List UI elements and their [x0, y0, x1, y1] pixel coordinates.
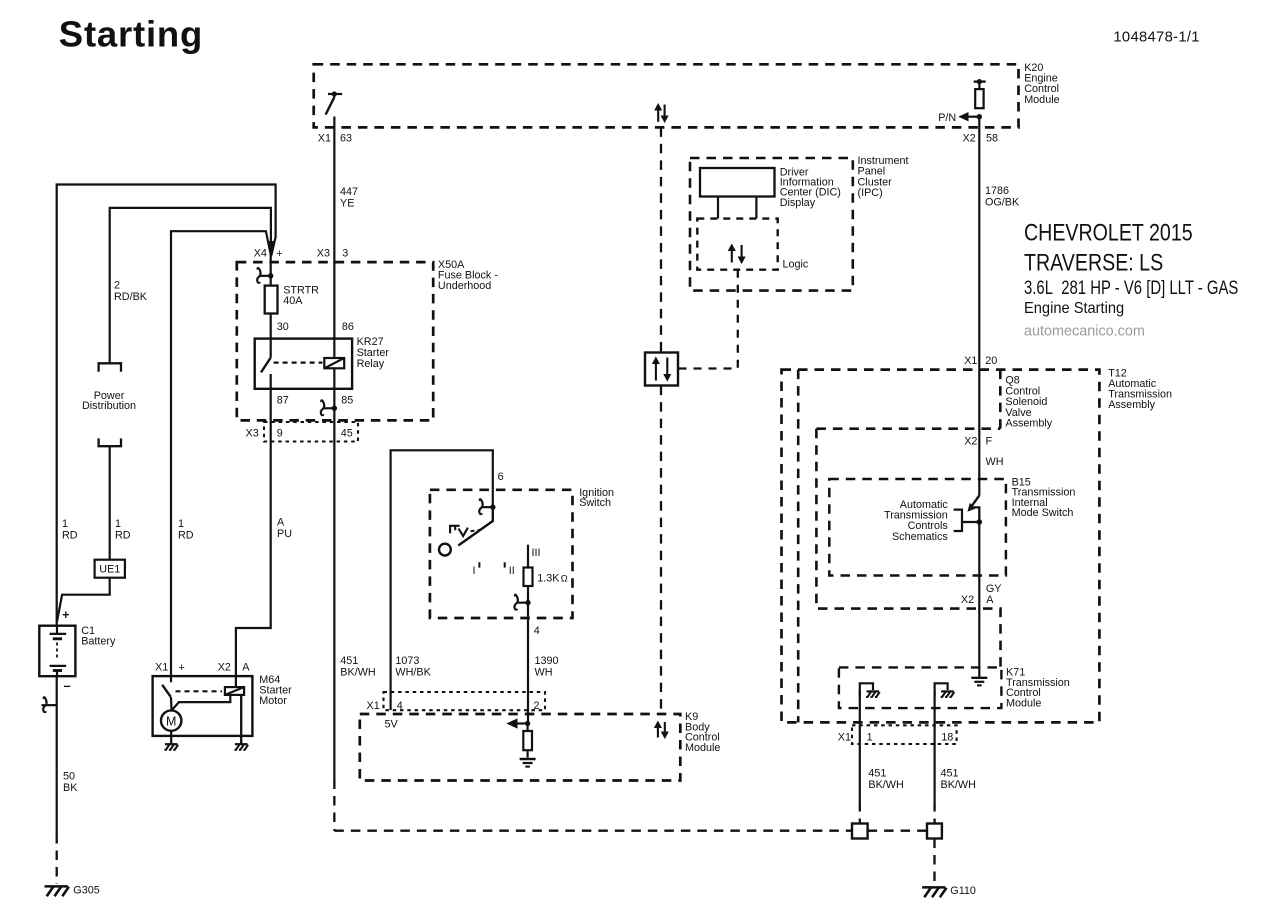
svg-text:X1: X1: [155, 661, 168, 673]
svg-text:2: 2: [534, 700, 540, 712]
ignition switch rotor circle: [439, 544, 451, 556]
inline connector at relay 85: [322, 407, 334, 409]
svg-text:X1: X1: [318, 133, 331, 145]
svg-text:63: 63: [340, 133, 352, 145]
node P/N with left arrow: [967, 116, 979, 118]
power distribution tap bracket upper: [99, 363, 121, 372]
svg-text:58: 58: [986, 132, 998, 144]
junction arrow into X4+: [268, 242, 274, 258]
wire power distribution feed: [110, 208, 271, 363]
svg-text:+: +: [276, 248, 282, 260]
svg-text:Module: Module: [1024, 94, 1059, 106]
wire power distribution to UE1: [109, 446, 111, 560]
svg-text:BK/WH: BK/WH: [340, 666, 375, 678]
svg-text:BK/WH: BK/WH: [868, 779, 903, 791]
svg-text:86: 86: [342, 321, 354, 333]
svg-text:30: 30: [277, 321, 289, 333]
dashed serial data wire (K20 to BCM, vertical): [660, 127, 662, 352]
inline connector on battery negative: [41, 704, 56, 706]
svg-text:1048478-1/1: 1048478-1/1: [1113, 30, 1199, 46]
wire BCM 5V feed to ignition pin 6: [391, 450, 493, 710]
wire 85 down through X3-45: [333, 408, 335, 779]
wire 1390 WH ignition to BCM: [527, 603, 529, 724]
svg-text:X2: X2: [963, 132, 976, 144]
bracket to transmission controls schematics: [954, 510, 962, 531]
svg-text:40A: 40A: [283, 295, 303, 307]
dashed serial data branch to IPC logic: [678, 270, 738, 369]
svg-text:Mode Switch: Mode Switch: [1012, 507, 1074, 519]
position tick I: [478, 562, 480, 567]
svg-text:4: 4: [397, 700, 403, 712]
solenoid to motor link: [173, 695, 231, 709]
svg-text:automecanico.com: automecanico.com: [1024, 324, 1145, 340]
wire battery negative 50 BK: [56, 676, 58, 834]
svg-text:Assembly: Assembly: [1108, 399, 1155, 411]
svg-text:1073: 1073: [395, 655, 419, 667]
svg-text:WH/BK: WH/BK: [395, 666, 431, 678]
wire 447 YE (K20 X1-63 down to starter relay coil 86): [333, 117, 335, 359]
relay KR27 box: [255, 339, 352, 389]
svg-text:III: III: [532, 547, 541, 559]
svg-text:451: 451: [868, 768, 886, 780]
svg-text:85: 85: [341, 395, 353, 407]
B15 switch pole: [973, 507, 979, 522]
K71 internal ground pin 18: [935, 683, 948, 697]
svg-text:3.6L 281 HP - V6 [D] LLT - GA: 3.6L 281 HP - V6 [D] LLT - GAS: [1024, 276, 1238, 298]
svg-text:Distribution: Distribution: [82, 400, 136, 412]
svg-text:X2: X2: [964, 436, 977, 448]
svg-text:+: +: [179, 662, 185, 674]
svg-text:M: M: [166, 715, 176, 729]
svg-text:WH: WH: [986, 456, 1004, 468]
chassis ground under motor: [165, 743, 178, 745]
wire starter motor battery cable feed: [171, 231, 271, 676]
wire X4 stub into fuse: [270, 255, 272, 276]
svg-text:A: A: [277, 517, 285, 529]
svg-text:Motor: Motor: [259, 695, 287, 707]
svg-text:451: 451: [340, 655, 358, 667]
svg-text:X2: X2: [218, 661, 231, 673]
starter solenoid dashed link: [176, 690, 223, 692]
svg-text:A: A: [986, 594, 994, 606]
svg-text:Starting: Starting: [59, 14, 203, 55]
DIC display leg left: [717, 197, 719, 219]
K71 internal ground pin 1: [860, 683, 873, 697]
svg-text:RD: RD: [62, 530, 78, 542]
svg-text:Engine Starting: Engine Starting: [1024, 299, 1124, 317]
svg-text:A: A: [242, 661, 250, 673]
svg-text:1: 1: [115, 518, 121, 530]
svg-text:18: 18: [941, 731, 953, 743]
svg-text:6: 6: [498, 471, 504, 483]
module Q8 Control Solenoid Valve Assembly right edge: [999, 370, 1002, 429]
dashed ground bus between splices: [868, 830, 927, 832]
B15 mode switch blade: [970, 496, 979, 508]
svg-text:20: 20: [985, 355, 997, 367]
dashed wire to G305: [56, 834, 58, 884]
wire B15 to K71 ground: [978, 522, 980, 677]
svg-text:50: 50: [63, 771, 75, 783]
svg-text:1390: 1390: [535, 655, 559, 667]
svg-text:1: 1: [867, 731, 873, 743]
serial data junction box with arrows: [645, 353, 678, 386]
svg-text:3: 3: [342, 247, 348, 259]
ground symbol inside K9: [520, 758, 536, 760]
dashed ground wire from relay 85 branch: [333, 780, 335, 831]
inline connector at ignition pin 4: [516, 601, 528, 603]
svg-text:+: +: [62, 608, 69, 622]
connector X3 below fuse block: [264, 422, 358, 442]
svg-text:−: −: [63, 680, 70, 694]
svg-text:X3: X3: [246, 427, 259, 439]
module Ignition Switch box: [430, 490, 573, 618]
wire 87 down through X3-9 to starter solenoid: [236, 389, 271, 676]
power distribution tap bracket lower: [99, 438, 121, 446]
svg-text:Logic: Logic: [783, 259, 809, 271]
svg-text:BK/WH: BK/WH: [941, 779, 976, 791]
relay switch contact: [270, 339, 272, 358]
svg-text:(IPC): (IPC): [858, 187, 883, 199]
wire 1786 OG/BK (K20 X2-58 down to B15 switch): [978, 117, 980, 496]
ignition key symbol: [450, 526, 460, 534]
ground G110: [922, 886, 945, 889]
svg-text:Battery: Battery: [81, 636, 116, 648]
svg-text:Switch: Switch: [579, 497, 611, 509]
wire UE1 to battery positive: [57, 578, 110, 622]
svg-text:1: 1: [178, 518, 184, 530]
svg-text:X1: X1: [367, 700, 380, 712]
svg-text:Relay: Relay: [357, 358, 385, 370]
motor M circle: [161, 710, 181, 730]
wire relay coil 85 to connector: [333, 368, 335, 408]
wire K71 pin 1 to splice: [859, 690, 861, 802]
svg-text:447: 447: [340, 186, 358, 198]
ground G305: [45, 885, 68, 888]
svg-text:G305: G305: [73, 885, 99, 897]
svg-text:5V: 5V: [385, 719, 399, 731]
module K9 Body Control Module box: [360, 714, 681, 781]
resistor inside K20 (P/N sense pull-up): [974, 80, 986, 82]
module M64 Starter Motor box: [153, 676, 253, 736]
ignition resistor 1.3K: [527, 545, 529, 568]
svg-text:RD: RD: [178, 530, 194, 542]
svg-text:G110: G110: [950, 885, 976, 897]
svg-text:Underhood: Underhood: [438, 280, 491, 292]
DIC display leg right: [755, 197, 757, 219]
chassis ground under solenoid: [235, 743, 248, 745]
svg-text:9: 9: [277, 427, 283, 439]
svg-text:BK: BK: [63, 782, 78, 794]
battery C1 box: [39, 626, 75, 677]
svg-text:2: 2: [114, 280, 120, 292]
svg-text:X1: X1: [838, 731, 851, 743]
ignition switch blade: [458, 507, 493, 545]
svg-text:X2: X2: [961, 594, 974, 606]
svg-text:451: 451: [941, 768, 959, 780]
inline connector at fuse input: [259, 275, 271, 277]
position tick II: [504, 562, 506, 567]
svg-text:Schematics: Schematics: [892, 531, 948, 543]
arrows inside logic box: [731, 250, 733, 263]
svg-text:RD: RD: [115, 530, 131, 542]
wire solenoid to ground: [240, 695, 242, 744]
svg-text:Assembly: Assembly: [1005, 418, 1052, 430]
svg-text:Ω: Ω: [561, 574, 568, 584]
component UE1 junction block: [95, 560, 125, 578]
svg-text:WH: WH: [535, 666, 553, 678]
wire battery positive feed (top-left loop to X4+): [57, 185, 276, 626]
svg-text:X4: X4: [254, 247, 267, 259]
ground symbol inside K71: [971, 677, 987, 679]
dashed serial data wire (below junction box to K9): [660, 386, 662, 714]
svg-text:F: F: [986, 436, 993, 448]
svg-text:Display: Display: [780, 197, 816, 209]
relay coil: [324, 358, 344, 368]
svg-text:P/N: P/N: [938, 112, 956, 124]
logic box inside IPC: [697, 219, 777, 270]
svg-text:OG/BK: OG/BK: [985, 196, 1020, 208]
svg-text:X3: X3: [317, 247, 330, 259]
svg-text:4: 4: [534, 625, 540, 637]
B15 common pole junction: [977, 519, 983, 525]
module B15 Transmission Internal Mode Switch box: [829, 479, 1006, 576]
svg-text:Module: Module: [685, 742, 720, 754]
fuse STRTR 40A: [270, 276, 272, 286]
inline connector at ignition pin 6: [492, 490, 494, 507]
relay actuation dashed link: [274, 362, 323, 364]
svg-text:TRAVERSE: LS: TRAVERSE: LS: [1024, 249, 1163, 276]
wire motor to ground: [170, 731, 172, 744]
serial-data arrows at K20 bottom: [657, 109, 659, 122]
module X50A Fuse Block - Underhood box: [237, 262, 433, 420]
svg-text:YE: YE: [340, 198, 354, 210]
switch inside K20 (run/crank request): [328, 93, 342, 95]
svg-text:Module: Module: [1006, 698, 1041, 710]
inner assembly boundary: [797, 370, 800, 723]
module K20 Engine Control Module box: [314, 64, 1019, 127]
svg-text:CHEVROLET 2015: CHEVROLET 2015: [1024, 219, 1193, 246]
svg-text:87: 87: [277, 395, 289, 407]
svg-text:1.3K: 1.3K: [537, 572, 560, 584]
starter contact blade: [170, 676, 172, 682]
svg-text:1786: 1786: [985, 185, 1009, 197]
serial data arrows inside K9: [657, 727, 659, 738]
splice box right: [927, 824, 942, 839]
starter solenoid coil: [235, 676, 237, 687]
svg-text:1: 1: [62, 518, 68, 530]
wire K71 pin 18 to splice: [933, 690, 935, 802]
svg-text:UE1: UE1: [99, 563, 120, 575]
svg-text:I: I: [473, 565, 476, 577]
svg-text:RD/BK: RD/BK: [114, 291, 148, 303]
dashed wire splice to G110: [933, 839, 935, 885]
module T12 Automatic Transmission Assembly box: [782, 370, 1100, 723]
battery cell plates: [56, 626, 58, 634]
connector X1 of K71: [852, 725, 957, 744]
svg-text:II: II: [509, 565, 515, 577]
connector boundary X2 F/A: [816, 427, 1000, 430]
module K71 Transmission Control Module box: [839, 667, 1002, 708]
junction and arrow inside K9: [516, 722, 528, 724]
connector X1 of K9: [384, 692, 546, 710]
svg-text:PU: PU: [277, 528, 292, 540]
module IPC Instrument Panel Cluster box: [690, 158, 853, 291]
wire fuse to relay 30: [270, 314, 272, 339]
splice box left: [852, 824, 868, 839]
dashed ground bus horizontal: [334, 830, 852, 832]
svg-text:45: 45: [341, 427, 353, 439]
svg-text:X1: X1: [964, 355, 977, 367]
DIC display block: [700, 168, 775, 197]
K9 pull-down resistor: [523, 731, 532, 750]
wire resistor to connector: [527, 586, 529, 603]
